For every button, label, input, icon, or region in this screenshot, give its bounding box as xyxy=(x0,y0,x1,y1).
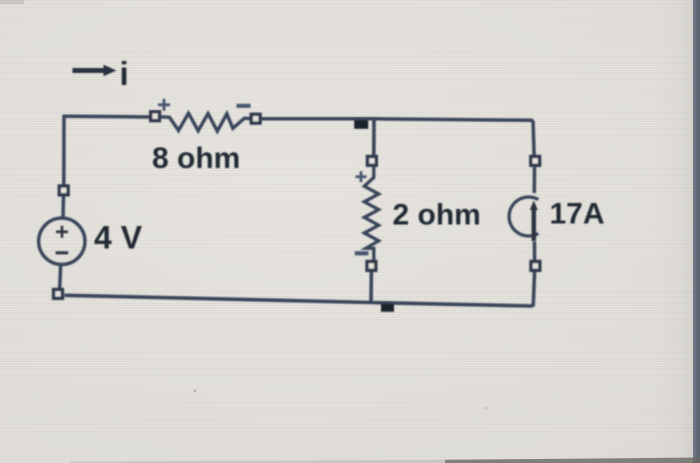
I1 top terminal xyxy=(531,157,540,166)
left top terminal xyxy=(59,186,68,195)
svg-text:2 ohm: 2 ohm xyxy=(393,199,481,232)
right wire down xyxy=(533,120,534,157)
R1 right terminal xyxy=(251,114,260,123)
current arrow i xyxy=(73,55,129,92)
middle branch top junction square xyxy=(354,120,368,128)
wire source to bottom terminal xyxy=(60,265,61,291)
resistor R2 2 ohm vertical zigzag xyxy=(364,167,378,262)
wire to bottom-right corner xyxy=(533,272,534,307)
bottom-left terminal xyxy=(54,290,63,299)
R2 minus sign xyxy=(355,251,369,255)
left wire down from top-left corner xyxy=(62,115,66,186)
top wire left segment xyxy=(64,114,151,118)
svg-text:17A: 17A xyxy=(550,198,605,231)
bottom wire xyxy=(65,295,534,306)
svg-text:8 ohm: 8 ohm xyxy=(152,142,240,175)
svg-text:i: i xyxy=(120,55,129,92)
dust speck 2 xyxy=(485,407,487,409)
resistor R1 8 ohm zigzag xyxy=(159,113,252,131)
I1 arrow bar xyxy=(532,208,536,241)
middle wire bottom xyxy=(369,271,373,303)
wire terminal to source xyxy=(61,196,65,219)
top-left smudge xyxy=(0,0,24,4)
wire source to bottom terminal xyxy=(533,242,537,263)
current source I1 arc xyxy=(509,197,538,236)
middle wire top xyxy=(372,119,376,157)
R2 top terminal xyxy=(368,157,377,166)
R1 minus sign xyxy=(237,104,251,108)
R1 plus sign xyxy=(158,99,170,111)
bottom junction square xyxy=(381,304,394,312)
V1 minus xyxy=(56,251,69,254)
I1 bottom terminal xyxy=(531,262,540,271)
wire terminal to source xyxy=(533,166,537,193)
bottom photo edge band xyxy=(70,460,445,463)
dust speck 1 xyxy=(194,390,197,393)
svg-text:4 V: 4 V xyxy=(94,220,143,256)
voltage source V1 circle xyxy=(39,218,85,264)
R2 plus sign xyxy=(356,171,367,182)
R2 bottom terminal xyxy=(367,262,376,271)
right screen-edge dark band xyxy=(693,0,700,463)
top wire right segment xyxy=(260,119,533,121)
V1 plus xyxy=(56,226,68,238)
R1 left terminal xyxy=(151,112,160,121)
